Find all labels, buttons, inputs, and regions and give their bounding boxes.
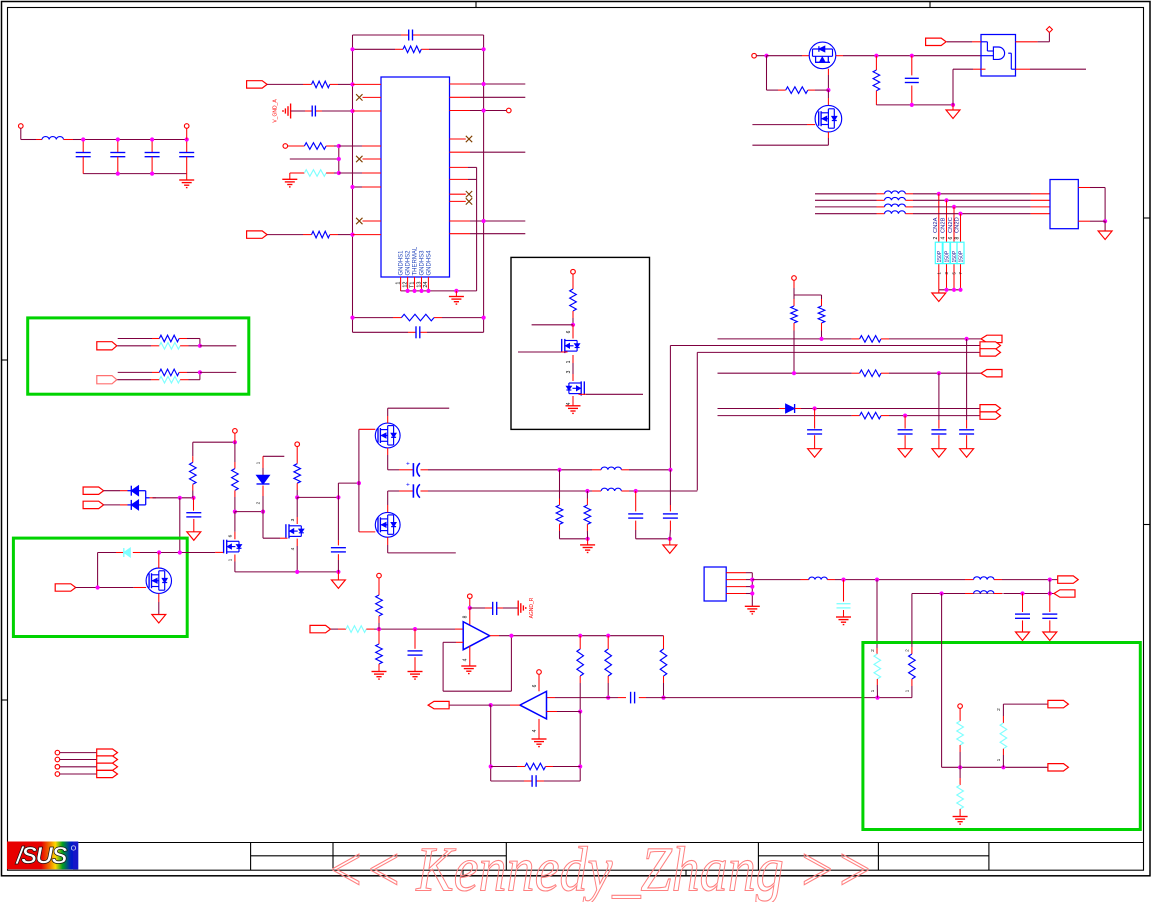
svg-text:GNDHS2: GNDHS2 [406,250,412,276]
svg-text:CN2C: CN2C [948,217,954,233]
svg-text:150P: 150P [945,250,951,262]
svg-text:8: 8 [463,615,469,618]
svg-text:+: + [406,460,410,467]
svg-text:V_GND_A: V_GND_A [273,99,279,123]
svg-text:+: + [406,482,410,489]
svg-text:3: 3 [566,370,572,373]
svg-text:1: 1 [566,360,572,363]
svg-text:13: 13 [416,282,422,288]
svg-text:6: 6 [532,684,538,687]
svg-text:6: 6 [566,330,572,333]
svg-text:/SUS: /SUS [15,843,68,870]
svg-text:GNDHS3: GNDHS3 [420,250,426,276]
svg-text:1: 1 [228,558,234,561]
svg-text:CN2A: CN2A [933,217,939,233]
svg-text:T1: T1 [409,282,415,288]
svg-text:4: 4 [941,237,947,240]
svg-text:1: 1 [870,689,876,692]
svg-text:2: 2 [996,708,1002,711]
svg-text:<< Kennedy_Zhang >>: << Kennedy_Zhang >> [327,834,874,902]
svg-text:THERMAL: THERMAL [413,246,419,275]
svg-text:CN2D: CN2D [955,217,961,233]
svg-text:2: 2 [870,649,876,652]
svg-text:AGND_R: AGND_R [529,597,535,618]
svg-text:12: 12 [402,282,408,288]
svg-text:8: 8 [955,237,961,240]
svg-text:1: 1 [395,282,401,285]
svg-text:150P: 150P [937,250,943,262]
svg-text:GNDHS4: GNDHS4 [426,250,432,276]
svg-text:4: 4 [566,402,572,405]
svg-text:4: 4 [463,658,469,661]
svg-text:24: 24 [423,282,429,288]
svg-text:150P: 150P [959,250,965,262]
svg-text:6: 6 [948,237,954,240]
svg-text:4: 4 [532,729,538,732]
svg-text:2: 2 [905,649,911,652]
svg-text:1: 1 [905,689,911,692]
svg-text:3: 3 [290,518,296,521]
svg-text:1: 1 [256,461,262,464]
svg-text:2: 2 [256,501,262,504]
svg-text:GNDHS1: GNDHS1 [399,250,405,276]
svg-text:6: 6 [228,534,234,537]
svg-text:CN2B: CN2B [941,217,947,233]
svg-text:2: 2 [933,237,939,240]
svg-text:4: 4 [290,547,296,550]
svg-text:1: 1 [996,758,1002,761]
